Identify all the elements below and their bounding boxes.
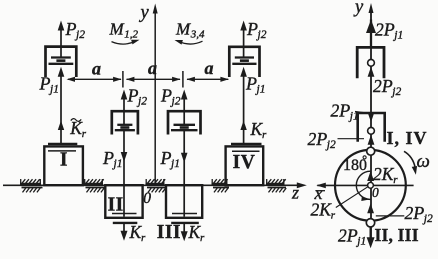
bearing support 5 xyxy=(266,179,286,192)
crank T-bar cylinder II xyxy=(113,222,138,224)
svg-text:a: a xyxy=(205,58,214,78)
force Pj2 arrow cylinder II xyxy=(121,90,128,126)
crank web block II xyxy=(105,185,142,218)
svg-text:a: a xyxy=(148,58,157,78)
y axis label (right) xyxy=(353,0,364,18)
svg-text:j2: j2 xyxy=(256,29,267,41)
z axis (crankshaft axis) xyxy=(3,182,307,188)
svg-text:P: P xyxy=(160,148,172,168)
force 2Pj2 label (left, crank pin) xyxy=(308,129,365,151)
force Pj2 label cylinder I xyxy=(65,19,86,41)
force Kr arrowhead cylinder I xyxy=(58,121,64,131)
force 2Kr label (inside circle) xyxy=(373,164,398,186)
svg-text:M: M xyxy=(109,20,125,39)
svg-text:j2: j2 xyxy=(422,213,433,225)
leader line to 2Pj2 label (bottom right) xyxy=(376,215,405,217)
force Kr label cylinder II xyxy=(129,222,147,244)
svg-text:P: P xyxy=(346,226,358,246)
crank bracket I,IV xyxy=(358,113,385,142)
force Kr label cylinder III xyxy=(188,222,206,244)
svg-text:0: 0 xyxy=(143,190,151,207)
svg-text:r: r xyxy=(141,232,146,244)
x axis label with overbar xyxy=(314,183,326,203)
bearing support 3 xyxy=(146,179,167,192)
180 degree label xyxy=(343,156,367,174)
svg-text:j2: j2 xyxy=(325,139,336,151)
svg-text:P: P xyxy=(65,19,77,39)
svg-text:II: II xyxy=(108,195,124,216)
svg-text:y: y xyxy=(353,0,364,18)
piston I,IV bracket xyxy=(357,47,384,78)
force Pj2 label cylinder III xyxy=(160,86,181,108)
moment M1,2 curved arrow xyxy=(112,40,140,45)
svg-text:P: P xyxy=(246,19,258,39)
force 2Pj1 arrow down at crank xyxy=(368,112,375,122)
force Kr arrow cylinder II (down) xyxy=(121,224,128,241)
svg-text:j2: j2 xyxy=(170,96,181,108)
svg-text:j1: j1 xyxy=(255,84,266,96)
crank pin circle (bottom of crank circle) xyxy=(366,219,374,227)
crank T-bar cylinder III xyxy=(171,222,199,224)
force 2Pj2 label (below piston) xyxy=(373,76,401,98)
svg-text:j2: j2 xyxy=(390,86,401,98)
svg-text:P: P xyxy=(383,19,395,39)
svg-text:P: P xyxy=(245,74,257,94)
label II xyxy=(108,195,124,216)
moment M3,4 label xyxy=(175,20,205,41)
svg-text:j1: j1 xyxy=(169,158,180,170)
force 2Kr label (bottom left) xyxy=(311,200,336,222)
svg-text:ω: ω xyxy=(417,151,430,172)
svg-text:I, IV: I, IV xyxy=(387,128,428,148)
force 2Pj1 arrow down (II,III) xyxy=(367,227,375,248)
force Pj1 label cylinder I xyxy=(39,74,59,96)
dimension line segment a (cyl II to III) xyxy=(126,77,181,82)
svg-text:2: 2 xyxy=(308,129,317,149)
force Kr label cylinder IV xyxy=(250,119,268,141)
centre pin circle xyxy=(368,182,374,188)
crank circle xyxy=(335,150,406,221)
force Pj1 arrow cylinder I (up, at piston) xyxy=(58,67,65,144)
dimension label a (2) xyxy=(148,58,157,78)
label II, III xyxy=(375,225,419,245)
svg-text:j1: j1 xyxy=(355,236,366,248)
svg-text:j1: j1 xyxy=(112,158,123,170)
label I xyxy=(60,150,68,171)
cylinder I piston in cylinder xyxy=(46,47,77,77)
svg-text:1,2: 1,2 xyxy=(124,29,138,41)
crank T-bar cylinder IV xyxy=(231,143,262,145)
y axis arrowhead (right) xyxy=(369,3,374,13)
force 2Pj1 label top xyxy=(375,19,403,41)
svg-text:j1: j1 xyxy=(48,84,59,96)
force Pj2 arrow cylinder III xyxy=(181,90,188,126)
connecting rod line cylinder III xyxy=(183,130,185,217)
svg-text:r: r xyxy=(331,210,336,222)
x axis (right diagram) xyxy=(316,183,413,189)
force 2Pj2 arrow below piston pin xyxy=(368,67,375,77)
svg-text:j1: j1 xyxy=(392,30,403,42)
force Pj1 label cylinder III xyxy=(160,148,180,170)
force 2Pj1 arrow top (I,IV up) xyxy=(366,20,376,48)
dimension label a (3) xyxy=(205,58,214,78)
cylinder II piston in cylinder xyxy=(112,111,138,134)
svg-text:III: III xyxy=(157,222,181,243)
svg-text:r: r xyxy=(262,129,267,141)
y axis shaft (right diagram) xyxy=(370,8,372,239)
y axis label (left) xyxy=(139,3,150,23)
crank pin circle (crank bracket) xyxy=(368,127,375,134)
svg-text:2: 2 xyxy=(405,203,414,223)
force Pj1 label cylinder IV xyxy=(245,74,265,96)
svg-text:II, III: II, III xyxy=(375,225,419,245)
origin 0 label (left) xyxy=(143,190,151,207)
180 degree arc xyxy=(356,171,370,201)
svg-text:2: 2 xyxy=(331,101,340,121)
bearing support 4 xyxy=(212,179,230,192)
z axis label xyxy=(291,183,299,203)
origin 0 label (right) xyxy=(372,185,379,200)
svg-text:2: 2 xyxy=(373,76,382,96)
omega label xyxy=(417,151,430,172)
crank web block IV xyxy=(226,146,264,185)
svg-text:P: P xyxy=(338,101,350,121)
force Pj1 label cylinder II xyxy=(102,148,122,170)
svg-text:a: a xyxy=(92,59,101,79)
svg-text:P: P xyxy=(39,74,51,94)
force 2Kr arrow up (below center) xyxy=(367,203,374,213)
moment M1,2 label xyxy=(109,20,139,41)
crank web block III xyxy=(166,185,202,218)
force Pj2 arrow cylinder IV xyxy=(240,21,247,58)
cylinder III piston in cylinder xyxy=(168,111,201,134)
force 2Pj2 label (bottom right) xyxy=(405,203,433,225)
svg-text:j2: j2 xyxy=(136,96,147,108)
dimension label a (1) xyxy=(92,59,101,79)
svg-text:r: r xyxy=(82,128,87,140)
crank pin circle (top of crank circle) xyxy=(367,147,375,155)
svg-text:z: z xyxy=(291,183,299,203)
svg-text:P: P xyxy=(160,86,172,106)
bearing support 2 xyxy=(84,179,105,192)
svg-text:3,4: 3,4 xyxy=(190,29,205,41)
label IV xyxy=(233,152,256,173)
force Pj1 arrow cylinder IV (up, at piston) xyxy=(240,67,247,144)
svg-text:r: r xyxy=(393,174,398,186)
force 2Pj2 arrow up at crank pin xyxy=(368,135,375,145)
svg-text:P: P xyxy=(127,86,139,106)
crank T-bar cylinder I xyxy=(48,143,77,145)
label III xyxy=(157,222,181,243)
omega rotation arrow xyxy=(404,151,417,175)
svg-text:2: 2 xyxy=(338,226,347,246)
svg-text:r: r xyxy=(200,232,205,244)
force 2Kr arrow up (I,IV cranks) xyxy=(367,171,374,181)
moment M3,4 curved arrow xyxy=(175,40,203,45)
force Pj2 label cylinder IV xyxy=(246,19,267,41)
dimension line segment a (cyl III to IV) xyxy=(186,77,229,82)
svg-text:2: 2 xyxy=(373,164,382,184)
force Pj1 arrow cylinder III (down) xyxy=(181,153,188,163)
piston pin circle (top piston) xyxy=(368,59,375,66)
force Pj2 arrow cylinder I xyxy=(58,21,65,58)
svg-text:P: P xyxy=(381,76,393,96)
dimension tick at cylinder III axis xyxy=(182,71,184,88)
svg-text:M: M xyxy=(175,20,191,39)
force Kr arrowhead cylinder IV xyxy=(240,121,246,131)
svg-text:P: P xyxy=(102,148,114,168)
svg-text:P: P xyxy=(412,203,424,223)
label I, IV xyxy=(387,128,428,148)
force Kr arrow cylinder III (down) xyxy=(181,224,188,242)
cylinder IV piston in cylinder xyxy=(229,47,259,77)
svg-text:j2: j2 xyxy=(74,29,85,41)
leader line from 2Kr label to centre xyxy=(336,187,368,208)
connecting rod line cylinder II xyxy=(123,130,125,217)
force Pj2 label cylinder II xyxy=(127,86,148,108)
force Pj1 arrow cylinder II (down) xyxy=(121,152,128,162)
svg-text:P: P xyxy=(315,129,327,149)
force 2Pj1 label (bottom) xyxy=(338,226,366,248)
svg-text:2: 2 xyxy=(375,19,384,39)
svg-text:2: 2 xyxy=(311,200,320,220)
svg-text:I: I xyxy=(60,150,68,171)
force Kr label cylinder I (with vector mark) xyxy=(69,118,87,140)
dimension tick at cylinder II axis xyxy=(122,71,124,88)
bearing support 1 xyxy=(20,179,43,192)
svg-text:IV: IV xyxy=(233,152,256,173)
svg-text:y: y xyxy=(139,3,150,23)
dimension line segment a (cyl I to II) xyxy=(67,77,122,82)
force 2Pj1 label (left, crank) xyxy=(331,101,367,123)
crank web block I xyxy=(44,146,83,185)
y axis (left diagram) xyxy=(153,4,158,186)
svg-text:180: 180 xyxy=(343,157,367,174)
